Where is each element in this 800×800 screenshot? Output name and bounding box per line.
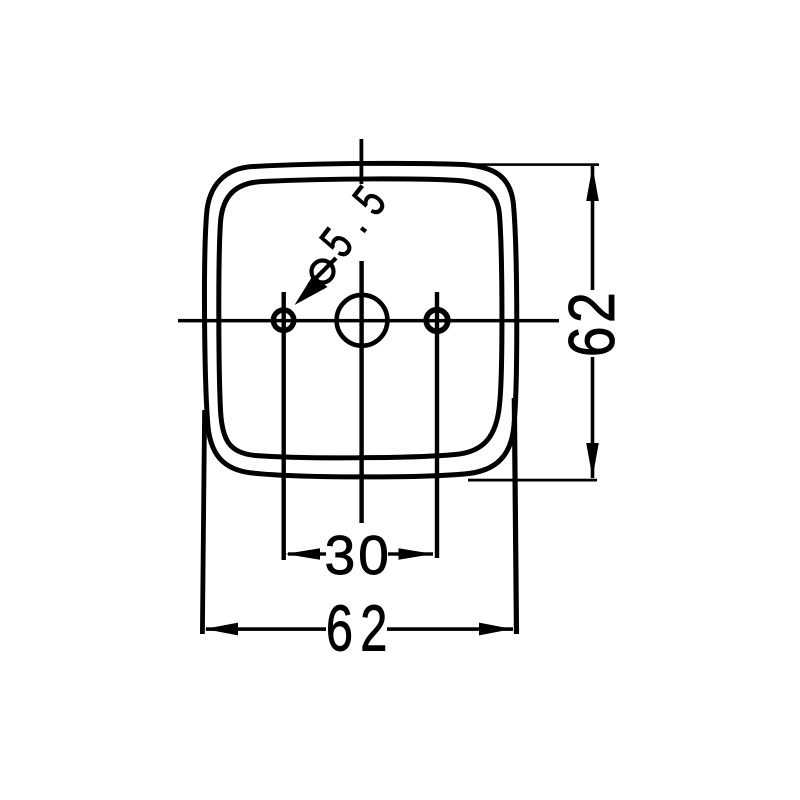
holes dim line left segment with arrow	[288, 552, 326, 555]
left mounting hole ring	[273, 310, 293, 330]
left mounting hole centerline	[282, 292, 286, 560]
bottom dim arrow right	[479, 623, 513, 636]
horizontal centerline	[178, 319, 559, 323]
outer housing outline	[204, 163, 516, 477]
svg-text:30: 30	[325, 524, 392, 586]
holes dim line right segment with arrow	[388, 552, 433, 555]
svg-text:62: 62	[326, 593, 395, 665]
right dim arrow up	[586, 166, 599, 201]
right dim: bottom extension line	[468, 479, 597, 482]
right mounting hole ring	[426, 310, 448, 332]
label diameter symbol	[312, 261, 334, 283]
right dim: top extension line	[466, 163, 599, 166]
right dim arrow down	[586, 443, 599, 478]
right dim line lower segment	[591, 357, 595, 478]
svg-text:62: 62	[555, 289, 628, 357]
bottom dim: right extension line	[514, 398, 516, 634]
center hole circle	[337, 295, 388, 346]
leader arrowhead to left hole	[295, 275, 328, 306]
bottom dim line left segment	[206, 627, 326, 631]
bottom dim line right segment	[387, 627, 513, 631]
inner lens outline	[219, 179, 502, 458]
bottom dim: left extension line	[202, 410, 204, 634]
bottom dim arrow left	[205, 623, 239, 636]
vertical centerline top tick	[360, 139, 364, 184]
vertical centerline main segment	[359, 261, 363, 523]
right mounting hole centerline	[435, 292, 439, 558]
right dim line upper segment	[591, 166, 595, 290]
